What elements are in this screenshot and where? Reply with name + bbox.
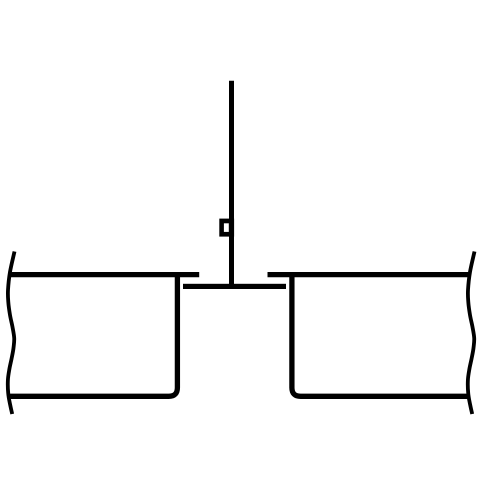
left panel top edge xyxy=(9,272,199,277)
hanger rod (center vertical web) xyxy=(229,81,234,286)
right panel top edge xyxy=(268,272,471,277)
left break line (wavy) xyxy=(8,252,15,415)
cross-tee flange bar xyxy=(183,284,286,289)
right break line (wavy) xyxy=(468,252,475,415)
left panel right edge and bottom xyxy=(9,272,177,396)
right panel left edge and bottom xyxy=(292,272,469,396)
clip square on hanger xyxy=(219,219,234,237)
